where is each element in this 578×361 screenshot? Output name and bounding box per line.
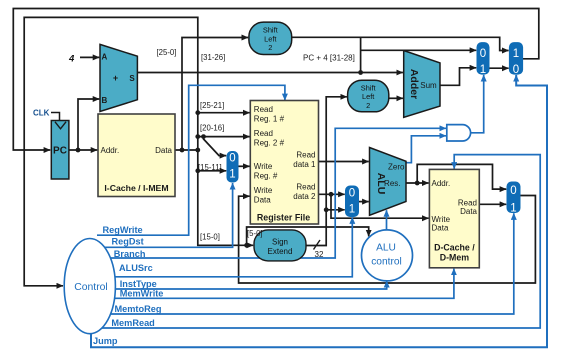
junction [20-16] branch [195,134,200,139]
wire Read data 1 to ALU A [318,161,369,163]
wire Branch to AND gate [111,128,447,258]
svg-text:Addr.: Addr. [432,179,451,188]
wire Jump to jump mux select [91,75,547,347]
svg-text:0: 0 [349,187,355,199]
wire PC feedback from jump mux output to PC input [13,9,539,151]
I-Cache / I-MEM [98,114,175,197]
svg-text:0: 0 [480,48,486,60]
svg-text:RegWrite: RegWrite [103,225,143,235]
svg-text:Read: Read [254,129,273,138]
junction ALU result branch [415,181,420,186]
svg-text:Control: Control [74,282,108,293]
register file [250,101,318,225]
svg-text:MemtoReg: MemtoReg [115,304,162,314]
svg-text:data 2: data 2 [293,192,316,201]
wire [15-0] to sign extend [198,150,253,245]
wire [20-16] to Read Reg 2 [198,136,250,138]
svg-text:Sign: Sign [272,237,288,246]
wire [15-11] to RegDst mux 1 input [198,170,226,172]
mux jump (1/0) [509,43,522,75]
svg-text:InstType: InstType [120,279,157,289]
wire RegDst mux out to Write Reg [238,165,250,167]
mux ALUSrc (0/1) [346,186,359,217]
wire PC+4 riser to jump line [31-28] [360,37,362,72]
wire sign extend branch to ALUSrc mux 1 [326,209,345,211]
junction [15-11] branch [195,168,200,173]
svg-text:1: 1 [480,64,486,76]
wire Read data 2 to D-Cache Write Data [331,194,429,218]
svg-text:PC: PC [53,145,67,156]
svg-text:1: 1 [513,48,519,60]
svg-text:Read: Read [296,151,315,160]
junction PC output [76,148,81,153]
wire writeback mux out to Register File Write Data [239,196,536,284]
wire PC+4 to branch mux 0 input [361,49,477,51]
svg-text:Branch: Branch [114,249,146,259]
wire constant 4 to adder A [80,56,99,58]
svg-text:2: 2 [366,101,370,110]
junction sign extend output branch [324,207,329,212]
svg-text:data 1: data 1 [293,160,316,169]
svg-text:Reg. 1 #: Reg. 1 # [254,115,285,124]
svg-text:B: B [102,96,108,105]
ALU control [362,230,413,281]
svg-text:[15-11]: [15-11] [198,163,222,172]
svg-text:[25-0]: [25-0] [157,48,177,57]
junction instruction [25-0] branch [180,148,185,153]
svg-text:Write: Write [254,186,273,195]
svg-text:Sum: Sum [420,81,437,90]
wire [20-16] branch to RegDst mux 0 input [204,137,227,156]
svg-text:+: + [113,73,118,83]
wire ALUSrc mux out to ALU B [359,201,369,203]
wire MemRead to D-Cache [102,155,540,328]
wire Zero to AND gate [406,136,446,163]
wire PC out to adder B [78,99,99,150]
wire Read data 2 to ALUSrc mux 0 [318,193,345,195]
adder branch [404,51,440,118]
wire ALU control out to ALU [386,210,388,230]
AND gate [447,125,471,141]
svg-text:[5-0]: [5-0] [247,229,263,238]
svg-text:Data: Data [432,224,449,233]
mux branch (0/1) [477,43,489,75]
svg-text:A: A [102,53,108,62]
svg-text:Reg. #: Reg. # [254,172,278,181]
svg-text:D-Cache /: D-Cache / [434,243,475,253]
wire ALU result to D-Cache Addr [406,182,429,184]
svg-text:Data: Data [460,207,477,216]
svg-text:0: 0 [513,64,519,76]
wire [25-0] to shift left 2 [182,38,248,151]
shift left 2 (jump) [249,22,292,54]
wire ALUSrc to ALUSrc mux select [115,217,352,276]
wire sign extend out riser to shift left 2 branch [306,97,347,246]
ALU [370,148,407,216]
svg-text:0: 0 [510,185,516,197]
svg-text:0: 0 [229,152,235,164]
wire RegWrite to Register File [97,85,285,235]
svg-text:2: 2 [268,43,272,52]
svg-text:Jump: Jump [93,336,118,346]
junction [15-0] / [5-0] branch [244,243,249,248]
svg-text:Reg. 2 #: Reg. 2 # [254,139,285,148]
svg-text:32: 32 [315,250,324,259]
slash 32-bit mark [314,240,321,250]
svg-text:[31-26]: [31-26] [201,53,225,62]
svg-text:Extend: Extend [268,247,293,256]
svg-text:ALU: ALU [376,243,396,254]
svg-text:Data: Data [155,146,172,155]
svg-text:1: 1 [510,203,516,215]
svg-text:Res.: Res. [384,179,400,188]
svg-text:Left: Left [362,92,374,101]
mux writeback (0/1) [507,182,520,213]
wire MemtoReg to writeback mux select [111,213,514,314]
wire PC+4 to branch adder input [137,72,403,74]
svg-text:[20-16]: [20-16] [200,124,224,133]
wire branch mux out to jump mux 0 input [489,67,509,69]
svg-text:[25-21]: [25-21] [200,101,224,110]
wire shift left 2 to branch adder input [389,97,403,99]
junction [25-21] branch [195,110,200,115]
adder PC+4 [100,44,137,111]
wire jump target from shift left 2 to jump mux 1 input [292,37,509,50]
svg-text:Left: Left [264,34,276,43]
svg-text:S: S [129,74,135,83]
shift left 2 (branch) [348,80,389,112]
svg-text:Adder: Adder [408,69,420,99]
junction read data 2 branch [329,192,334,197]
wire InstType to ALU control [115,281,386,289]
svg-text:MemWrite: MemWrite [120,288,164,298]
junction instruction bus [195,148,200,153]
svg-text:CLK: CLK [33,109,50,118]
wire PC out to I-Cache Addr [69,149,97,151]
svg-text:Addr.: Addr. [101,146,120,155]
svg-text:Read: Read [296,183,315,192]
svg-text:Shift: Shift [263,26,278,35]
control unit [64,239,115,334]
svg-text:control: control [371,257,402,268]
wire instruction [31-26] to Control [24,17,198,285]
svg-text:I-Cache / I-MEM: I-Cache / I-MEM [104,183,168,193]
svg-text:1: 1 [229,169,235,181]
wire ALU result bypass to writeback mux 0 [417,164,506,189]
mux RegDst (0/1) [227,152,238,183]
wire [25-21] to Read Reg 1 [198,112,250,114]
svg-text:Zero: Zero [388,162,405,171]
svg-text:PC + 4 [31-28]: PC + 4 [31-28] [303,54,355,63]
svg-text:4: 4 [68,54,75,65]
wire MemWrite to D-Cache [114,269,454,299]
svg-text:Register File: Register File [257,213,310,223]
wire AND out to branch mux select [471,75,484,133]
svg-text:[15-0]: [15-0] [200,233,220,242]
svg-text:ALUSrc: ALUSrc [119,263,153,273]
register PC [51,121,69,180]
svg-text:1: 1 [349,204,355,216]
wire D-Cache Read Data to writeback mux 1 [479,203,506,205]
D-Cache / D-Mem [429,169,479,267]
junction [20-16] to mux branch [201,134,206,139]
wire CLK elbow [51,113,60,121]
svg-text:Write: Write [254,162,273,171]
sign extend [254,230,306,261]
svg-text:MemRead: MemRead [111,318,154,328]
wire Sum to branch mux 1 input [440,68,476,86]
wire I-Cache Data out [175,149,198,151]
wire [5-0] to ALU control [247,227,369,245]
svg-text:RegDst: RegDst [112,237,144,247]
svg-text:D-Mem: D-Mem [440,253,470,263]
wire RegDst to RegDst mux select [104,183,233,247]
junction PC+4 branch [358,70,363,75]
svg-text:Data: Data [254,196,271,205]
svg-text:Read: Read [254,105,273,114]
svg-text:Shift: Shift [361,83,376,92]
